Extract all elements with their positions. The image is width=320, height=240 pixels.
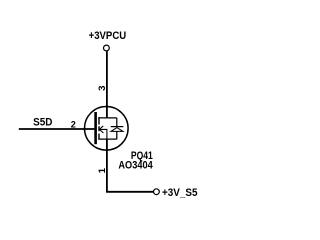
svg-text:2: 2 [71,120,76,130]
transistor PQ41 body circle [85,107,129,151]
wire: source down [106,139,108,192]
wire: bottom horizontal to +3V_S5 node [106,191,153,193]
channel bottom segment (source) [98,134,99,140]
body arrow lower barb [99,129,103,133]
body diode bottom lead [116,131,118,139]
channel top segment (drain) [98,117,99,124]
power node +3V_S5 open circle [154,189,160,195]
svg-text:1: 1 [97,168,107,173]
body diode top lead [116,118,118,127]
drain rail (top horizontal) [98,117,117,119]
body connection line to source [100,129,107,139]
gate bar of PQ41 [94,112,97,144]
svg-text:+3VPCU: +3VPCU [89,30,127,42]
source rail (bottom horizontal) [98,138,117,140]
channel middle segment (body) [98,126,99,131]
power node +3VPCU open circle [104,45,110,51]
body arrow upper barb (N-channel, points to channel) [99,126,103,129]
body diode cathode bar [111,126,124,128]
wire: +3VPCU node to drain of PQ41 [106,51,108,118]
svg-text:AO3404: AO3404 [118,160,153,172]
body diode triangle (anode) [111,128,123,132]
svg-text:+3V_S5: +3V_S5 [162,187,198,199]
svg-text:3: 3 [97,86,107,91]
svg-text:S5D: S5D [33,117,52,129]
wire: S5D net to gate [19,128,95,130]
